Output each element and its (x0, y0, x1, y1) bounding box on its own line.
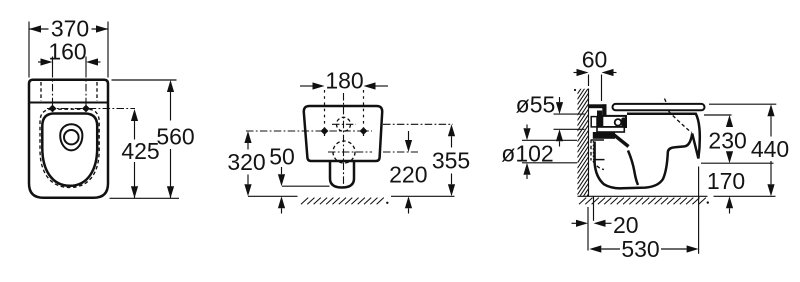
seat lid profile (side view) (613, 104, 705, 110)
svg-text:320: 320 (227, 149, 265, 175)
440 dim side view (709, 104, 789, 196)
ø55 dim side view (516, 91, 585, 146)
355 dim front view (432, 124, 470, 196)
svg-text:530: 530 (621, 236, 659, 262)
horizontal centerline through fixing holes (front view) (246, 130, 372, 132)
fixing hole centerlines (front view) (324, 90, 326, 137)
hidden seat outline (plan view, dashed) (40, 109, 99, 187)
svg-text:220: 220 (389, 162, 427, 188)
floor hatch end dot (side view) (707, 201, 709, 203)
ø102 dim side view (501, 125, 577, 180)
hidden edges (plan view) (40, 82, 42, 101)
svg-text:425: 425 (121, 138, 159, 164)
drain centerline (front view) (328, 151, 372, 153)
flush opening egg shape (plan view) (60, 124, 82, 150)
rim slope line (side view) (614, 135, 629, 147)
160 dim left view (38, 39, 101, 70)
230 dim side view (701, 115, 774, 163)
wall hatching (side view) (577, 77, 588, 211)
pipe box white (side view) (591, 117, 597, 127)
fixing hole diamond right (front view) (360, 127, 368, 135)
fixing hole diamond left (plan view) (49, 105, 57, 113)
60 dim side view (574, 46, 617, 101)
svg-text:230: 230 (708, 128, 746, 154)
svg-text:60: 60 (582, 46, 608, 72)
vertical centerline (front view) (343, 93, 345, 187)
centerlines of fixing holes (left view) (52, 70, 54, 112)
trap weir line (side view) (628, 151, 638, 186)
svg-text:160: 160 (48, 39, 86, 65)
220 dim front view (389, 131, 427, 214)
water inlet hole, hidden circle (front view) (337, 117, 351, 131)
svg-text:20: 20 (613, 212, 639, 238)
50 dim front view (269, 144, 329, 214)
425 dim left view (121, 109, 159, 198)
floor hatching (side view) (579, 198, 706, 205)
svg-text:170: 170 (707, 168, 745, 194)
inner opening circle (plan view) (64, 130, 79, 144)
20 dim side view (572, 197, 639, 251)
outlet pipe (front view) (330, 160, 354, 188)
svg-text:50: 50 (269, 144, 295, 170)
hinge step (side view) (597, 127, 624, 132)
560 dim left view (110, 80, 195, 198)
wall face line (side view) (588, 89, 590, 197)
inlet elbow, solid black (side view) (597, 111, 602, 128)
drain hole, hidden circle (front view) (333, 141, 355, 163)
fixing hole diamond left (front view) (321, 127, 329, 135)
320 dim front view (227, 131, 265, 196)
mounting band, solid black (side view) (593, 132, 615, 139)
floor hatch end dot (front view) (386, 202, 388, 204)
floor line front view (248, 195, 298, 197)
svg-text:560: 560 (156, 124, 194, 150)
svg-text:180: 180 (325, 67, 363, 93)
wall top dot (574, 89, 576, 91)
hinge bracket black cap (side view) (621, 118, 626, 128)
toilet body (front view) (304, 106, 382, 161)
hinge box (side view) (602, 116, 626, 127)
hinge pin circle (side view) (615, 119, 622, 126)
seat (plan view) (42, 114, 97, 186)
fixing hole diamond right (plan view) (82, 105, 90, 113)
floor hatching (front view) (301, 198, 384, 205)
ceramic bowl profile (side view) (595, 114, 700, 189)
svg-text:355: 355 (432, 148, 470, 174)
svg-text:440: 440 (751, 136, 789, 162)
flush pipe connector, solid black (side view) (589, 104, 607, 108)
floor line (side view) (578, 195, 708, 197)
hidden rim edge dashes (side view) (665, 99, 667, 104)
hidden drain connector behind wall (side view) (590, 140, 592, 161)
svg-text:370: 370 (51, 16, 89, 42)
svg-text:ø55: ø55 (516, 91, 556, 117)
370 dim left view (29, 16, 108, 78)
cistern edge line (plan view) (29, 102, 108, 104)
530 dim side view (589, 167, 698, 262)
180 dim front view (300, 67, 388, 93)
upper hole centerline (front view) (332, 123, 356, 125)
toilet body outline (plan view) (29, 80, 108, 198)
170 dim side view (707, 168, 745, 214)
